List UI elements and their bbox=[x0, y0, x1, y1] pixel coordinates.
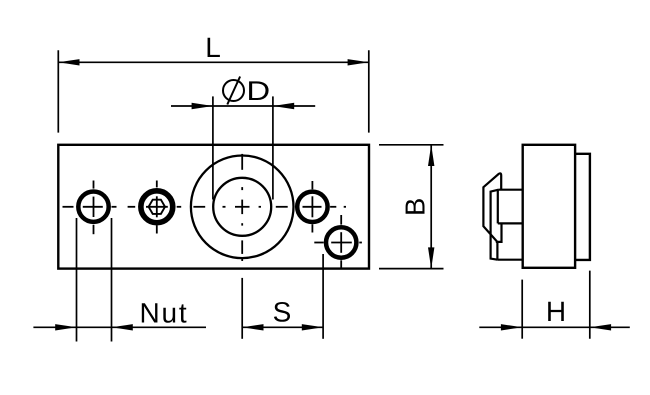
hole 2 vertical centerline bbox=[156, 181, 158, 234]
dimension S arrowheads bbox=[242, 324, 263, 330]
dimension OD label: diameter symbol bbox=[223, 80, 244, 101]
dimension L extension lines bbox=[58, 50, 369, 132]
side view back plate bbox=[575, 154, 590, 260]
side view nut tab bottom edge bbox=[498, 222, 523, 224]
central boss outer circle bbox=[191, 156, 294, 259]
dimension H line with outside arrows bbox=[479, 326, 522, 328]
svg-text:H: H bbox=[546, 296, 566, 327]
dimension B arrowheads bbox=[428, 145, 434, 166]
spring clip folded front edge bbox=[491, 190, 499, 260]
spring clip outer profile bbox=[483, 173, 501, 242]
hole 1 vertical centerline bbox=[93, 181, 95, 235]
hole 3 (right) bbox=[297, 192, 327, 222]
svg-text:L: L bbox=[205, 32, 221, 63]
dimension H arrowheads bbox=[501, 324, 522, 330]
dimension B line bbox=[430, 145, 432, 269]
svg-text:B: B bbox=[399, 198, 430, 216]
dimension L arrowheads bbox=[58, 59, 79, 65]
central bore inner circle bbox=[213, 178, 271, 236]
dimension H extension lines bbox=[522, 271, 590, 339]
side view clip foot bottom edge bbox=[497, 259, 522, 261]
side view nut tab top edge bbox=[499, 189, 523, 191]
spring clip front edge inner verticals bbox=[497, 190, 499, 223]
dimension S extension lines bbox=[242, 254, 323, 339]
hole 4 horizontal centerline bbox=[314, 242, 362, 244]
dimension S line bbox=[242, 326, 323, 328]
dimension OD arrowheads bbox=[192, 103, 213, 109]
dimension OD line bbox=[171, 105, 315, 107]
svg-text:S: S bbox=[273, 296, 292, 327]
dimension OD extension lines bbox=[213, 96, 273, 199]
side view main body bbox=[523, 145, 575, 268]
dimension Nut line with outside arrows bbox=[33, 326, 76, 328]
horizontal centerline through holes (dash-dot) bbox=[63, 206, 347, 208]
hex nut hexagon bbox=[149, 200, 165, 214]
hole 4 (bottom right) bbox=[326, 227, 356, 257]
hole 1 (left) bbox=[78, 192, 108, 222]
dimension Nut arrowheads bbox=[55, 324, 76, 330]
front view plate outline bbox=[58, 145, 369, 269]
dimension B extension lines bbox=[379, 145, 444, 269]
hole 3 vertical centerline bbox=[311, 181, 313, 233]
hole 2 (hex nut) bbox=[141, 191, 173, 223]
central boss vertical centerline bbox=[241, 154, 243, 261]
svg-text:Nut: Nut bbox=[140, 297, 189, 328]
dimension L line bbox=[58, 61, 369, 63]
hole 4 vertical centerline bbox=[340, 215, 342, 268]
svg-text:D: D bbox=[246, 76, 270, 106]
dimension Nut extension lines bbox=[77, 218, 112, 342]
